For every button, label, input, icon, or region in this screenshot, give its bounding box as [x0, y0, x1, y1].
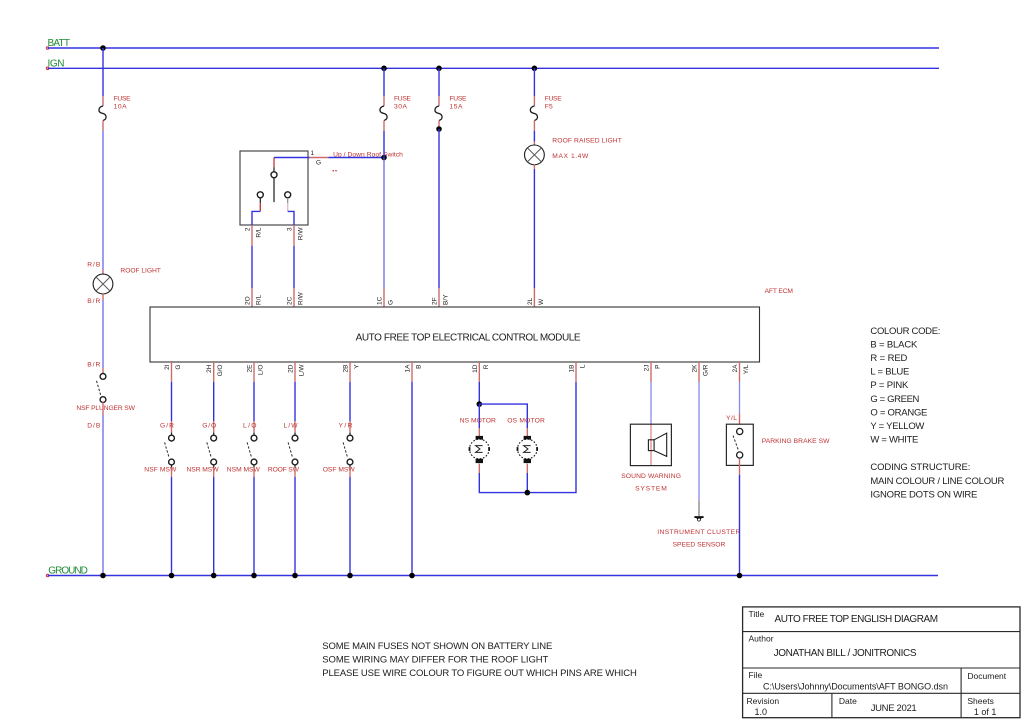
- switch NSR MSW: [211, 435, 217, 441]
- svg-text:2O: 2O: [245, 296, 252, 305]
- svg-text:Y/L: Y/L: [726, 415, 737, 422]
- svg-text:AUTO FREE TOP ENGLISH DIAGRAM: AUTO FREE TOP ENGLISH DIAGRAM: [775, 614, 939, 625]
- svg-text:IGNORE DOTS ON WIRE: IGNORE DOTS ON WIRE: [870, 489, 977, 500]
- svg-text:1: 1: [311, 150, 315, 157]
- wire fuse F5 to lamp: [533, 131, 535, 142]
- switch NSF MSW: [169, 435, 175, 441]
- wire NSF MSW to ground: [171, 467, 173, 477]
- svg-text:F5: F5: [545, 103, 553, 110]
- svg-text:FUSE: FUSE: [545, 95, 563, 102]
- switch ROOF SW: [292, 435, 298, 441]
- svg-text:JONATHAN BILL / JONITRONICS: JONATHAN BILL / JONITRONICS: [774, 648, 917, 659]
- wire G/O pin 2H to switch: [213, 382, 215, 421]
- svg-text:FUSE: FUSE: [394, 95, 412, 102]
- lamp roof light: [93, 274, 113, 294]
- svg-text:O = ORANGE: O = ORANGE: [870, 407, 927, 418]
- svg-text:30A: 30A: [394, 103, 408, 110]
- svg-text:2B: 2B: [343, 365, 350, 373]
- svg-text:G/R: G/R: [160, 423, 174, 430]
- wire NSM MSW to ground: [253, 467, 255, 477]
- junction below fuse 15A: [436, 126, 442, 132]
- svg-text:B/R: B/R: [87, 362, 100, 369]
- pole circle: [271, 172, 277, 178]
- fuse 15A: [438, 96, 440, 106]
- junction motor feed split: [477, 401, 483, 407]
- svg-text:G/R: G/R: [703, 364, 710, 376]
- svg-text:2H: 2H: [206, 364, 213, 373]
- wire left throw to pin 2: [259, 198, 261, 203]
- svg-text:3: 3: [287, 227, 294, 231]
- svg-text:CODING STRUCTURE:: CODING STRUCTURE:: [870, 462, 970, 473]
- wire pin 2B stub: [349, 362, 351, 382]
- parking brake switch box: [726, 424, 753, 465]
- switch parking brake: [737, 428, 743, 434]
- wire pin 2A Y/L to parking brake switch: [739, 362, 741, 382]
- svg-text:MAX 1.4W: MAX 1.4W: [552, 153, 589, 160]
- wire pin 2K G/R to speed sensor: [698, 362, 700, 382]
- wire pin 2H stub: [213, 362, 215, 382]
- svg-text:1C: 1C: [377, 296, 384, 305]
- svg-text:MAIN COLOUR / LINE COLOUR: MAIN COLOUR / LINE COLOUR: [870, 476, 1004, 487]
- svg-text:B: B: [416, 365, 423, 369]
- wire pin 2I stub: [171, 362, 173, 382]
- svg-text:ROOF RAISED LIGHT: ROOF RAISED LIGHT: [552, 137, 622, 144]
- wire GROUND rail: [48, 575, 938, 577]
- throw circle left: [257, 192, 263, 198]
- wire fuse 10A to roof light: [102, 131, 104, 270]
- fuse 10A: [102, 96, 104, 106]
- speaker icon: [648, 440, 654, 451]
- svg-text:JUNE 2021: JUNE 2021: [871, 703, 917, 714]
- svg-text:NSM MSW: NSM MSW: [227, 467, 261, 474]
- throw circle right: [285, 192, 291, 198]
- svg-text:2E: 2E: [247, 364, 254, 373]
- svg-text:G: G: [388, 300, 395, 305]
- wire pin 2D stub: [294, 362, 296, 382]
- switch box Up/Down Roof Switch: [240, 151, 308, 225]
- wire fuse 30A to ECM pin 1C: [383, 131, 385, 158]
- junction IGN at fuse 15A: [436, 66, 442, 72]
- sound warning system box: [630, 424, 671, 465]
- wire fuse 15A to ECM pin 2F: [438, 129, 440, 288]
- wire L/O pin 2E to switch: [253, 382, 255, 421]
- svg-text:2F: 2F: [432, 297, 439, 305]
- svg-text:1D: 1D: [472, 364, 479, 373]
- wire BATT down to fuse 10A: [102, 48, 104, 96]
- svg-text:Y: Y: [354, 364, 361, 369]
- svg-text:2D: 2D: [288, 364, 295, 373]
- wire L/W pin 2D to switch: [294, 382, 296, 421]
- svg-text:Title: Title: [749, 609, 765, 619]
- wire right throw to pin 3: [287, 198, 289, 203]
- svg-text:2J: 2J: [644, 365, 651, 372]
- svg-text:W: W: [538, 298, 545, 305]
- wire branch to OS motor: [479, 404, 527, 428]
- svg-text:FUSE: FUSE: [114, 95, 132, 102]
- svg-text:2L: 2L: [527, 297, 534, 305]
- svg-text:L/W: L/W: [284, 423, 299, 430]
- svg-text:10A: 10A: [114, 103, 128, 110]
- wire IGN to fuse F5: [533, 68, 535, 96]
- title block text: [747, 609, 1007, 717]
- svg-text:R/W: R/W: [298, 227, 305, 241]
- svg-text:Sheets: Sheets: [967, 696, 993, 706]
- svg-text:Y/R: Y/R: [339, 423, 353, 430]
- svg-text:Date: Date: [839, 696, 857, 706]
- wire lamp to ECM pin 2L: [533, 164, 535, 169]
- title block frame: [743, 607, 1020, 718]
- svg-text:P: P: [655, 365, 662, 369]
- svg-text:R/L: R/L: [256, 227, 263, 238]
- svg-text:1A: 1A: [405, 364, 412, 373]
- svg-text:2: 2: [245, 227, 252, 231]
- svg-text:1.0: 1.0: [755, 707, 768, 717]
- pin 1B stub: [575, 362, 577, 382]
- svg-text:G/O: G/O: [202, 423, 216, 430]
- svg-text:Author: Author: [749, 634, 774, 644]
- svg-text:2A: 2A: [732, 364, 739, 373]
- svg-text:SPEED SENSOR: SPEED SENSOR: [673, 542, 726, 549]
- svg-text:B/R: B/R: [87, 298, 100, 305]
- wire pin 2E stub: [253, 362, 255, 382]
- svg-text:1 of 1: 1 of 1: [974, 707, 997, 717]
- svg-text:Y/L: Y/L: [743, 364, 750, 374]
- svg-text:R/B: R/B: [87, 262, 101, 269]
- svg-text:FUSE: FUSE: [450, 95, 468, 102]
- svg-text:File: File: [749, 670, 763, 680]
- terminal arrow instrument cluster: [694, 516, 703, 521]
- wire IGN rail: [48, 67, 939, 69]
- wire NSR MSW to ground: [213, 467, 215, 477]
- svg-text:SOME WIRING MAY DIFFER FOR THE: SOME WIRING MAY DIFFER FOR THE ROOF LIGH…: [322, 654, 548, 665]
- svg-text:Y = YELLOW: Y = YELLOW: [870, 421, 924, 432]
- wire IGN to fuse 30A: [383, 68, 385, 96]
- wire pin 2J P to sounder: [650, 362, 652, 382]
- svg-text:AUTO FREE TOP ELECTRICAL CONTR: AUTO FREE TOP ELECTRICAL CONTROL MODULE: [356, 332, 581, 343]
- svg-text:R: R: [483, 364, 490, 369]
- switch NSF plunger: [100, 374, 106, 380]
- switch OSF MSW: [347, 435, 353, 441]
- notes: [322, 641, 637, 679]
- svg-text:OS MOTOR: OS MOTOR: [507, 418, 545, 425]
- svg-text:Document: Document: [967, 671, 1006, 681]
- dots label: [333, 170, 334, 171]
- junction on BATT at roof-light feed: [100, 45, 106, 51]
- svg-text:B/Y: B/Y: [443, 294, 450, 305]
- svg-text:R = RED: R = RED: [870, 353, 907, 364]
- svg-text:AFT ECM: AFT ECM: [765, 288, 794, 295]
- svg-text:L/O: L/O: [258, 365, 265, 375]
- junction switch feed on fuse30A wire: [381, 155, 387, 161]
- motor OS M2: [526, 428, 528, 436]
- junction on GROUND: [169, 573, 175, 579]
- svg-text:C:\Users\Johnny\Documents\AFT: C:\Users\Johnny\Documents\AFT BONGO.dsn: [763, 682, 948, 692]
- svg-text:L/W: L/W: [299, 364, 306, 376]
- wire plunger switch to ground: [102, 402, 104, 415]
- svg-text:L = BLUE: L = BLUE: [870, 367, 909, 378]
- svg-text:R/W: R/W: [298, 292, 305, 306]
- svg-text:ROOF LIGHT: ROOF LIGHT: [120, 267, 160, 274]
- svg-text:2K: 2K: [692, 364, 699, 373]
- junction motor return: [525, 490, 531, 496]
- wire pin 1A B to ground: [411, 362, 413, 382]
- svg-text:Up / Down Roof Switch: Up / Down Roof Switch: [333, 152, 403, 159]
- svg-text:SOME MAIN FUSES NOT SHOWN ON B: SOME MAIN FUSES NOT SHOWN ON BATTERY LIN…: [322, 641, 552, 652]
- op ECM box: [150, 307, 760, 362]
- svg-text:Revision: Revision: [747, 696, 780, 706]
- svg-text:P = PINK: P = PINK: [870, 380, 909, 391]
- svg-text:1B: 1B: [569, 365, 576, 373]
- svg-text:PLEASE USE WIRE COLOUR TO FIGU: PLEASE USE WIRE COLOUR TO FIGURE OUT WHI…: [322, 668, 637, 679]
- wire G/R pin 2I to switch: [171, 382, 173, 421]
- svg-text:G = GREEN: G = GREEN: [870, 394, 919, 405]
- svg-text:GROUND: GROUND: [48, 565, 88, 576]
- wire pole to pin 1: [273, 167, 275, 172]
- switch NSM MSW: [251, 435, 257, 441]
- junction on GROUND: [211, 573, 217, 579]
- colour code legend: [870, 326, 1004, 501]
- junction IGN at fuse 30A: [381, 66, 387, 72]
- svg-text:15A: 15A: [450, 103, 464, 110]
- svg-text:PARKING BRAKE SW: PARKING BRAKE SW: [762, 438, 830, 445]
- junction on GROUND: [251, 573, 257, 579]
- svg-text:G: G: [175, 365, 182, 370]
- svg-text:D/B: D/B: [87, 423, 101, 430]
- wire IGN to fuse 15A: [438, 68, 440, 96]
- wire BATT rail: [48, 47, 939, 49]
- fuse 30A: [383, 96, 385, 106]
- svg-text:R/L: R/L: [256, 295, 263, 306]
- junction on GROUND: [292, 573, 298, 579]
- junction on GROUND: [347, 573, 353, 579]
- junction IGN at fuse F5: [532, 66, 538, 72]
- svg-text:G: G: [316, 160, 321, 167]
- motor NS M1: [478, 428, 480, 436]
- svg-text:INSTRUMENT CLUSTER: INSTRUMENT CLUSTER: [657, 529, 740, 536]
- lamp roof raised light: [525, 145, 545, 165]
- svg-text:SYSTEM: SYSTEM: [635, 485, 667, 492]
- wire ROOF SW to ground: [294, 467, 296, 477]
- svg-text:2I: 2I: [164, 364, 171, 370]
- svg-text:L: L: [580, 364, 587, 368]
- svg-text:2C: 2C: [287, 296, 294, 305]
- svg-text:B = BLACK: B = BLACK: [870, 339, 918, 350]
- wire OSF MSW to ground: [349, 467, 351, 477]
- svg-text:W = WHITE: W = WHITE: [870, 435, 918, 446]
- svg-text:SOUND WARNING: SOUND WARNING: [621, 473, 681, 480]
- svg-text:NS MOTOR: NS MOTOR: [460, 418, 496, 425]
- svg-text:G/O: G/O: [217, 365, 224, 377]
- pole lever: [273, 178, 275, 202]
- wire parking brake to ground: [739, 459, 741, 475]
- fuse F5: [533, 96, 535, 106]
- wire pin 1D R to motors: [478, 362, 480, 382]
- wire roof light to plunger switch: [102, 293, 104, 300]
- svg-text:COLOUR CODE:: COLOUR CODE:: [870, 326, 940, 337]
- svg-text:NSF PLUNGER SW: NSF PLUNGER SW: [76, 405, 135, 412]
- wire Y/R pin 2B to switch: [349, 382, 351, 421]
- junction on GROUND: [100, 573, 106, 579]
- wire motor returns to pin 1B: [479, 382, 576, 493]
- svg-text:L/O: L/O: [243, 423, 257, 430]
